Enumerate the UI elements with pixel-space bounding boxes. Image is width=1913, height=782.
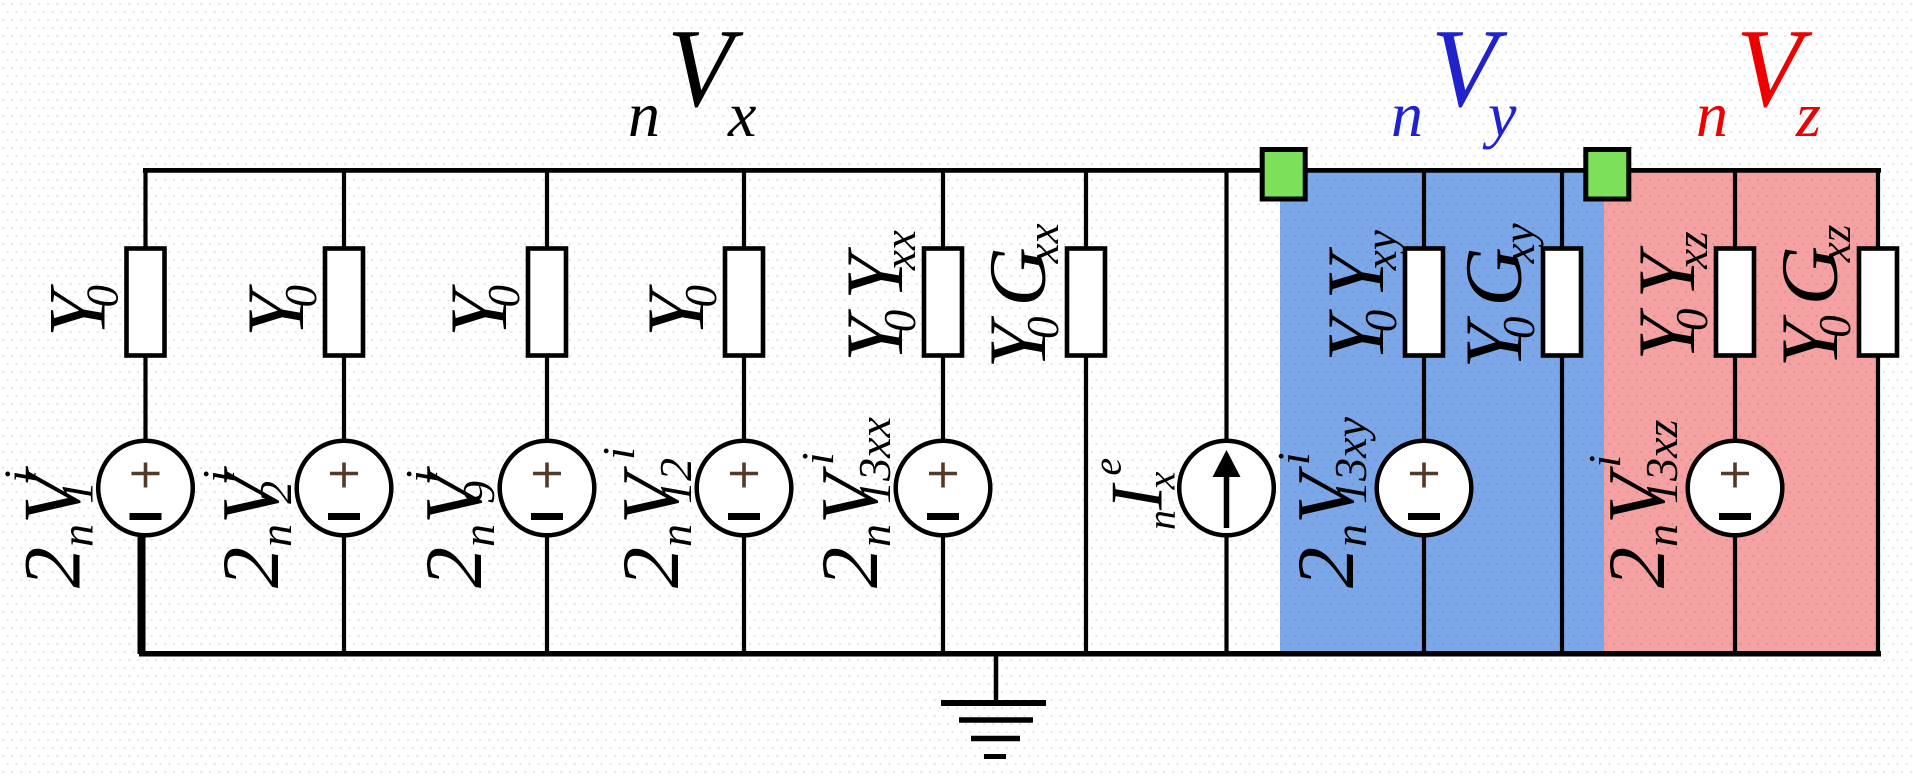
svg-text:x: x bbox=[727, 79, 756, 150]
svg-text:n: n bbox=[628, 79, 660, 150]
svg-text:Y0: Y0 bbox=[32, 284, 128, 337]
svg-text:n: n bbox=[1391, 79, 1423, 150]
svg-text:Y0: Y0 bbox=[630, 284, 726, 337]
svg-text:y: y bbox=[1482, 79, 1517, 150]
svg-text:Y0: Y0 bbox=[230, 284, 326, 337]
svg-text:n: n bbox=[1696, 79, 1728, 150]
svg-text:z: z bbox=[1795, 79, 1821, 150]
svg-text:Y0: Y0 bbox=[433, 284, 529, 337]
